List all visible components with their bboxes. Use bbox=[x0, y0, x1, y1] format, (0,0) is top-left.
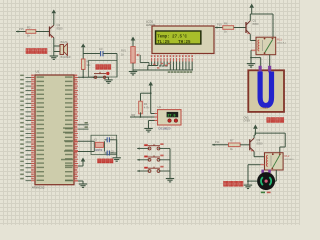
wire bbox=[159, 148, 171, 150]
wire bbox=[234, 27, 246, 29]
svg-text:AT89C52: AT89C52 bbox=[32, 186, 45, 190]
button K1 bbox=[137, 147, 139, 149]
ground bbox=[116, 157, 118, 158]
ground MCU bbox=[78, 180, 83, 182]
wire bbox=[159, 170, 171, 172]
wire collector bbox=[249, 14, 251, 21]
button K4 bbox=[94, 76, 96, 78]
capacitor C3 bbox=[83, 53, 100, 55]
svg-text:TH:25: TH:25 bbox=[178, 41, 191, 45]
resistor R6 bbox=[223, 26, 234, 30]
buzzer BUZ1 bbox=[60, 45, 64, 55]
LCD pin numbers bbox=[151, 55, 193, 57]
svg-text:Temp: 27.5'C: Temp: 27.5'C bbox=[157, 34, 187, 39]
wire branch bbox=[255, 132, 285, 134]
ground bbox=[148, 127, 150, 129]
svg-text:8050: 8050 bbox=[253, 22, 259, 26]
svg-text:Q2: Q2 bbox=[57, 23, 61, 27]
svg-text:C3: C3 bbox=[99, 47, 103, 51]
potentiometer RV1 bbox=[131, 47, 135, 63]
svg-text:8050: 8050 bbox=[257, 141, 263, 145]
oven heater element bbox=[260, 72, 271, 106]
net label marks bbox=[153, 63, 170, 69]
svg-text:P15: P15 bbox=[19, 27, 24, 31]
svg-text:OVEN: OVEN bbox=[261, 106, 268, 110]
wire collector bbox=[254, 133, 256, 135]
svg-text:G5CLE-1: G5CLE-1 bbox=[285, 159, 295, 161]
svg-text:DS18B20: DS18B20 bbox=[159, 126, 171, 130]
label 报警模块 bbox=[26, 49, 47, 54]
wire bbox=[53, 15, 55, 25]
svg-text:OV1: OV1 bbox=[244, 115, 250, 119]
svg-text:P11: P11 bbox=[215, 140, 220, 144]
MCU U1 body bbox=[35, 75, 74, 185]
wire bbox=[116, 140, 118, 157]
wire to oven pin bbox=[251, 57, 261, 59]
oven pin 1 bbox=[259, 66, 262, 73]
wire RST row bbox=[78, 76, 109, 78]
label 升温模块 bbox=[267, 118, 284, 123]
ground bbox=[108, 77, 110, 80]
svg-text:G5CLE-1: G5CLE-1 bbox=[277, 43, 287, 45]
MCU left pins bbox=[20, 75, 44, 182]
MCU xtal pin stubs bbox=[74, 78, 78, 182]
svg-text:DQ: DQ bbox=[132, 114, 136, 117]
node P1.0 net entry bbox=[215, 26, 217, 28]
resistor R2 bbox=[26, 30, 36, 34]
wire rail bbox=[250, 13, 273, 15]
wire lcd ground run bbox=[133, 69, 193, 71]
svg-text:R2: R2 bbox=[27, 25, 31, 29]
ground bbox=[250, 62, 252, 64]
wire XTAL1 bbox=[78, 140, 94, 142]
DS18B20 buttons bbox=[168, 119, 172, 123]
oven OV1 body bbox=[248, 70, 284, 112]
power +5V bbox=[131, 37, 136, 41]
transistor Q2 bbox=[49, 27, 51, 37]
svg-text:U1: U1 bbox=[36, 70, 40, 74]
transistor Q3 bbox=[249, 139, 251, 150]
DS18B20 display bbox=[167, 112, 179, 117]
wires RS RW E bbox=[159, 62, 167, 67]
wire bbox=[141, 92, 151, 94]
power +5V bbox=[81, 44, 86, 48]
label 复位电路 bbox=[96, 65, 111, 70]
crystal X1 bbox=[93, 141, 95, 151]
MCU right pins bbox=[65, 75, 89, 182]
resistor R1 bbox=[81, 59, 85, 69]
svg-text:BUZ1: BUZ1 bbox=[61, 40, 68, 44]
svg-text:BUZZER: BUZZER bbox=[61, 56, 71, 59]
wire emitter bbox=[249, 34, 251, 40]
ground bbox=[247, 184, 249, 187]
wire VSS VDD VEE bus bbox=[151, 62, 153, 66]
wire switch to motor bbox=[275, 170, 277, 181]
wires D0-D7 bbox=[168, 62, 192, 73]
svg-text:TL:25: TL:25 bbox=[157, 41, 170, 45]
wire key common bbox=[169, 149, 171, 179]
wire XTAL2 bbox=[78, 151, 94, 153]
wire bbox=[132, 63, 134, 70]
svg-text:OVEN: OVEN bbox=[244, 120, 251, 122]
node P1.1 net entry bbox=[212, 144, 214, 146]
svg-text:RV1: RV1 bbox=[121, 49, 127, 53]
power +5V bbox=[148, 82, 153, 86]
wire bbox=[82, 69, 84, 77]
wire emitter bbox=[253, 152, 255, 157]
ground bbox=[132, 70, 134, 72]
wire VDD bbox=[150, 93, 152, 113]
svg-text:4.7k: 4.7k bbox=[144, 106, 150, 110]
svg-text:R7: R7 bbox=[230, 139, 234, 143]
power +12V bbox=[253, 125, 258, 129]
power EA bbox=[78, 165, 83, 167]
wire bbox=[16, 31, 26, 33]
svg-text:12MHZ: 12MHZ bbox=[95, 149, 103, 152]
wire bbox=[36, 31, 50, 33]
resistor R4 pullup bbox=[139, 101, 143, 114]
wire bbox=[240, 144, 250, 146]
relay RL2 bbox=[265, 153, 284, 170]
LCD LM016L body bbox=[152, 26, 214, 54]
svg-text:Q3: Q3 bbox=[257, 138, 261, 142]
motor M1 bbox=[257, 172, 275, 190]
wire bbox=[53, 38, 55, 52]
MCU middle labels bbox=[61, 127, 73, 181]
svg-text:RL2: RL2 bbox=[285, 154, 290, 158]
button K3 bbox=[137, 170, 139, 172]
wire coil gnd bbox=[250, 49, 253, 51]
label 晶振电路 bbox=[98, 159, 113, 163]
wire coil return bbox=[261, 164, 265, 166]
capacitor C2 bbox=[105, 152, 108, 154]
resistor R7 bbox=[229, 143, 241, 147]
label 降温模块 bbox=[224, 181, 243, 186]
svg-text:R4: R4 bbox=[144, 102, 148, 106]
svg-text:8550: 8550 bbox=[57, 26, 63, 30]
capacitor C1 bbox=[105, 139, 108, 141]
svg-text:RL1: RL1 bbox=[277, 37, 282, 41]
relay RL1 bbox=[256, 37, 276, 55]
wire VEE to pot wiper bbox=[140, 62, 149, 64]
button K2 bbox=[137, 159, 139, 161]
wire motor left bbox=[248, 180, 257, 182]
oven pin 2 bbox=[268, 66, 271, 73]
ground bbox=[53, 52, 55, 57]
wire switch to oven bbox=[269, 55, 271, 67]
LCD pins bbox=[152, 58, 193, 62]
LCD screen bbox=[155, 30, 202, 44]
motor terminal pins bbox=[261, 170, 270, 173]
svg-text:Q1: Q1 bbox=[253, 19, 257, 23]
wire bbox=[212, 144, 228, 146]
node P1.5 net entry bbox=[16, 30, 18, 32]
svg-text:P10: P10 bbox=[217, 23, 222, 27]
svg-text:R6: R6 bbox=[224, 21, 228, 25]
svg-text:U2: U2 bbox=[158, 105, 162, 109]
power +5V bbox=[52, 10, 57, 14]
annotation box crystal bbox=[91, 135, 117, 154]
wire bbox=[159, 159, 171, 161]
svg-text:27.5: 27.5 bbox=[167, 114, 175, 118]
annotation box reset bbox=[89, 61, 118, 78]
transistor Q1 bbox=[245, 22, 247, 33]
wire bbox=[215, 27, 223, 29]
power +12V bbox=[249, 4, 254, 8]
wire DQ bbox=[140, 112, 142, 117]
ground bbox=[169, 177, 171, 180]
wire GND bbox=[149, 120, 158, 122]
